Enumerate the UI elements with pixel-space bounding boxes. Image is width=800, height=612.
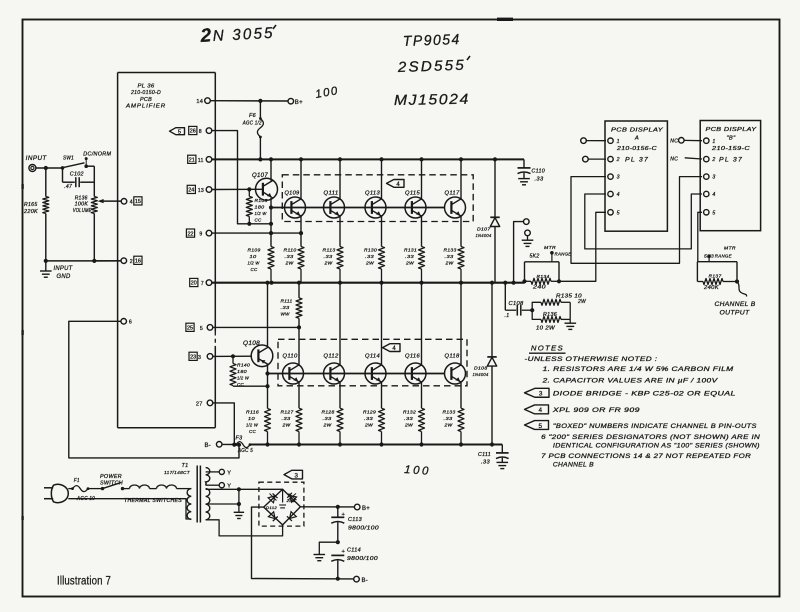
svg-text:Y: Y: [227, 470, 231, 476]
svg-text:F1: F1: [74, 478, 80, 484]
svg-text:220K: 220K: [23, 209, 38, 215]
svg-text:10: 10: [248, 416, 255, 422]
svg-text:Q118: Q118: [445, 354, 460, 360]
wire Q113 collector to B+ rail: [381, 159, 383, 199]
svg-text:R140: R140: [237, 363, 250, 369]
dashed outline top output transistor group: [282, 175, 473, 222]
svg-text:4: 4: [130, 199, 133, 205]
svg-text:F6: F6: [249, 113, 256, 119]
note 4 XPL909: [525, 405, 549, 414]
wire Q112 emitter down: [339, 382, 341, 408]
resistor R127 .33 ohm 2W: [296, 408, 302, 431]
PCB display B block PL37 210-159-C: [700, 121, 760, 231]
svg-text:1. RESISTORS ARE 1/4 W 5%: 1. RESISTORS ARE 1/4 W 5% CARBON FILM: [543, 366, 735, 373]
svg-text:15: 15: [135, 199, 141, 205]
svg-text:3: 3: [198, 355, 201, 361]
svg-text:.33: .33: [365, 254, 374, 260]
capacitor C110 .33 on B+ rail: [523, 159, 525, 167]
svg-text:23: 23: [190, 355, 196, 361]
ground for C111: [497, 461, 509, 463]
pin 3 [23] of PL36: [207, 354, 213, 360]
resistor R109 10 ohm 1/2W CC (Q107 emitter): [268, 247, 274, 270]
wire AC neutral to transformer: [68, 499, 191, 519]
svg-text:XPL 909 OR FR 909: XPL 909 OR FR 909: [551, 407, 640, 414]
svg-text:2W: 2W: [364, 423, 373, 429]
svg-text:.33: .33: [481, 460, 490, 466]
svg-text:RANGE: RANGE: [555, 252, 572, 258]
note 3 diode bridge: [525, 388, 550, 397]
resistor R130 .33 ohm 2W: [379, 247, 385, 270]
svg-text:2W: 2W: [323, 261, 332, 267]
svg-text:C108: C108: [509, 301, 524, 307]
svg-text:.33: .33: [535, 177, 544, 183]
svg-text:R109: R109: [248, 248, 261, 254]
svg-text:1/2 W: 1/2 W: [246, 423, 258, 429]
pin 9 [22] of PL36: [206, 230, 212, 236]
pin 1 of display B: [704, 138, 709, 143]
svg-text:MTR: MTR: [724, 245, 736, 251]
svg-text:2W: 2W: [284, 261, 293, 267]
wire R134 node to display A pin 5: [559, 212, 606, 281]
capacitor C108 .1: [504, 283, 506, 311]
resistor R137 240K: [697, 281, 703, 283]
svg-text:1: 1: [617, 139, 620, 145]
svg-text:MTR: MTR: [544, 245, 556, 251]
wire Q112 collector to output rail: [339, 283, 341, 366]
fuse F1 AGC 10: [68, 488, 72, 490]
wire Q108 collector to output rail: [267, 283, 269, 347]
svg-text:.33: .33: [285, 254, 294, 260]
svg-text:B+: B+: [362, 506, 370, 512]
svg-text:R130: R130: [364, 248, 377, 254]
svg-text:Q110: Q110: [283, 354, 298, 360]
wire SW1 to C102 node: [86, 165, 94, 167]
wire bridge negative to B- terminal: [252, 507, 354, 579]
pin 2 of display B: [704, 156, 709, 161]
svg-text:5K3: 5K3: [704, 253, 714, 259]
wire input ground bus: [46, 260, 121, 262]
pin 7 [20] of PL36: [206, 280, 212, 286]
bridge diode (lower right arm): [287, 512, 296, 521]
wire squiggle to channel B output: [737, 282, 747, 297]
svg-text:5K2: 5K2: [530, 254, 540, 260]
wire bridge positive to B+ terminal: [300, 506, 354, 508]
svg-text:"BOXED" NUMBERS INDICATE CHA: "BOXED" NUMBERS INDICATE CHANNEL B PIN-O…: [553, 423, 757, 430]
capacitor C111 .33 on B- rail: [501, 445, 503, 453]
svg-text:PCB: PCB: [140, 97, 152, 103]
svg-text:DC/NORM: DC/NORM: [83, 151, 111, 157]
svg-text:27: 27: [196, 401, 203, 407]
svg-text:4: 4: [712, 192, 715, 198]
svg-text:20: 20: [191, 281, 197, 287]
svg-text:1/2 W: 1/2 W: [248, 261, 260, 267]
svg-text:Q112: Q112: [324, 354, 339, 360]
wire secondary top tap to bridge: [206, 488, 283, 490]
svg-text:5: 5: [539, 423, 543, 430]
svg-text:R136: R136: [543, 312, 557, 318]
svg-text:Q113: Q113: [365, 191, 380, 197]
svg-text:PL 37: PL 37: [719, 157, 743, 164]
svg-text:5: 5: [712, 210, 715, 216]
svg-text:D112: D112: [266, 505, 277, 510]
svg-text:T1: T1: [182, 463, 189, 469]
resistor R128 .33 ohm 2W: [337, 408, 343, 431]
svg-text:9: 9: [199, 232, 202, 238]
svg-text:2W: 2W: [444, 261, 453, 267]
svg-text:2: 2: [199, 25, 212, 47]
svg-text:100: 100: [404, 464, 431, 478]
svg-text:11: 11: [198, 158, 204, 164]
diode D107 1N4004: [494, 159, 496, 217]
svg-text:NC: NC: [670, 139, 678, 145]
svg-text:SW1: SW1: [63, 156, 74, 162]
svg-text:NC: NC: [670, 157, 678, 163]
pin 8 [26] of PL36 with channel-B tag 5: [206, 128, 212, 134]
svg-text:DIODE BRIDGE - KBP C25-02: DIODE BRIDGE - KBP C25-02 OR EQUAL: [553, 391, 736, 398]
svg-text:INPUT: INPUT: [54, 266, 74, 272]
svg-text:R110: R110: [284, 248, 297, 254]
tag 4 (XPL909) bottom: [383, 344, 401, 352]
svg-text:14: 14: [196, 99, 203, 105]
svg-text:210-0150-D: 210-0150-D: [130, 90, 161, 96]
pin 3 of display B: [704, 174, 709, 179]
svg-text:R131: R131: [404, 248, 417, 254]
pin 3 of display A: [608, 174, 613, 179]
resistor R111 .33 ohm WW (current sense): [298, 283, 300, 298]
bridge center mark: [282, 489, 284, 502]
capacitor C113 9800/100: [337, 507, 339, 517]
ground for Zobel network: [565, 322, 577, 324]
svg-text:CC: CC: [251, 267, 258, 273]
svg-text:2: 2: [711, 157, 715, 163]
wire center tap to ground: [206, 503, 239, 505]
resistor R136 10 ohm 2W: [532, 310, 541, 319]
svg-text:R111: R111: [281, 299, 293, 305]
svg-text:21: 21: [189, 158, 195, 164]
svg-text:26: 26: [190, 129, 196, 135]
wire Q107 emitter down: [270, 198, 272, 247]
diode D108 1N4004: [491, 283, 493, 357]
wire pot bottom to pin 2 wire: [93, 214, 95, 261]
wire top base bus: [271, 207, 445, 209]
svg-text:1N4004: 1N4004: [473, 372, 489, 378]
wiper arrow of R136 to pin 4: [102, 200, 122, 202]
pin 5 [25] of PL36: [207, 325, 213, 331]
svg-text:RANGE: RANGE: [715, 253, 732, 259]
svg-text:Illustration 7: Illustration 7: [57, 574, 111, 588]
diode bridge D112: [264, 489, 301, 525]
svg-text:NOTES: NOTES: [531, 344, 564, 353]
svg-text:Q117: Q117: [445, 191, 461, 197]
svg-text:5: 5: [178, 129, 181, 135]
svg-text:CC: CC: [237, 382, 244, 388]
svg-text:R128: R128: [322, 410, 335, 416]
svg-text:9800/100: 9800/100: [347, 556, 378, 562]
svg-text:R137: R137: [709, 274, 722, 280]
svg-text:R116: R116: [246, 410, 259, 416]
potentiometer R136 100K VOLUME: [91, 197, 97, 214]
svg-text:TP9054: TP9054: [403, 32, 462, 50]
wire Zobel to ground: [569, 302, 571, 319]
pin 2 of display A: [608, 156, 613, 161]
svg-text:3: 3: [617, 175, 620, 181]
svg-text:C111: C111: [478, 452, 491, 458]
svg-text:PL 37: PL 37: [625, 157, 649, 164]
pin 4 [15] of PL36: [121, 199, 127, 205]
svg-text:210-0156-C: 210-0156-C: [616, 146, 657, 152]
svg-text:AGC 5: AGC 5: [237, 448, 253, 454]
svg-text:.33: .33: [282, 416, 291, 422]
wire Q118 collector to output rail: [460, 283, 462, 366]
pin 14 of PL36: [205, 98, 211, 104]
wire Q109 collector to B+ rail: [300, 159, 302, 199]
svg-text:210-159-C: 210-159-C: [711, 146, 750, 152]
svg-text:R165: R165: [24, 202, 38, 208]
wire Q115 collector to B+ rail: [421, 159, 423, 199]
svg-text:1N4004: 1N4004: [476, 233, 492, 239]
resistor R135 10 ohm 2W: [532, 302, 541, 310]
svg-text:.47: .47: [64, 184, 73, 190]
svg-text:.33: .33: [444, 416, 453, 422]
svg-text:6: 6: [129, 320, 132, 326]
svg-text:6 "200" SERIES DESIGNATORS: 6 "200" SERIES DESIGNATORS (NOT SHOWN) A…: [541, 434, 760, 441]
wire Q117 collector to B+ rail: [460, 159, 462, 199]
svg-text:INPUT: INPUT: [26, 155, 48, 162]
svg-text:R133: R133: [444, 248, 457, 254]
svg-text:4: 4: [617, 192, 620, 198]
svg-text:10: 10: [250, 254, 257, 260]
svg-text:1: 1: [712, 139, 715, 145]
wire secondary bottom tap to bridge: [206, 520, 283, 536]
resistor R103 180 ohm 1/2W CC: [248, 189, 250, 196]
dashed outline bottom output transistor group: [278, 339, 467, 386]
AC line plug: [51, 484, 68, 502]
svg-text:+: +: [342, 512, 346, 518]
svg-text:R127: R127: [281, 410, 294, 416]
resistor R140 180 ohm 1/2W CC: [232, 356, 234, 363]
svg-text:2SD555: 2SD555: [397, 58, 467, 76]
svg-text:+: +: [342, 549, 346, 555]
capacitor C102 .47: [62, 168, 64, 182]
wire Q118 emitter down: [460, 382, 462, 408]
svg-text:F3: F3: [236, 436, 243, 442]
svg-text:.33: .33: [323, 416, 332, 422]
pin 4 of display A: [608, 191, 613, 196]
resistor R132 .33 ohm 2W: [419, 408, 425, 431]
svg-text:A: A: [634, 136, 639, 142]
svg-text:-UNLESS OTHERWISE NOTED :: -UNLESS OTHERWISE NOTED :: [525, 356, 658, 363]
svg-text:C113: C113: [348, 517, 362, 523]
ground for supply midpoint: [314, 554, 326, 556]
PCB amplifier block PL36 210-0150-D: [118, 72, 216, 74]
svg-text:CC: CC: [249, 429, 256, 435]
svg-text:7 PCB CONNECTIONS 14 & 27: 7 PCB CONNECTIONS 14 & 27 NOT REPEATED F…: [541, 453, 751, 460]
wire B- rail: [250, 444, 502, 446]
svg-text:CHANNEL B: CHANNEL B: [715, 302, 756, 308]
tag 4 (XPL909) top: [387, 180, 405, 188]
svg-text:10 2W: 10 2W: [536, 326, 556, 332]
svg-text:2W: 2W: [322, 423, 331, 429]
svg-text:PCB DISPLAY: PCB DISPLAY: [706, 127, 757, 133]
wire R140 bottom to Q108 emitter: [233, 385, 268, 387]
pin 27 of PL36: [207, 400, 213, 406]
wire Q116 collector to output rail: [421, 283, 423, 366]
wire pin 9 to driver emitter nodes: [212, 232, 301, 234]
resistor R133 .33 ohm 2W: [458, 247, 464, 270]
svg-text:2W: 2W: [443, 423, 452, 429]
svg-text:B+: B+: [295, 100, 303, 106]
wire display A pin 4 to display B pin 4: [585, 194, 702, 249]
pin 6 of PL36: [121, 319, 127, 325]
svg-text:WW: WW: [281, 312, 290, 318]
svg-text:5: 5: [617, 210, 620, 216]
svg-text:24: 24: [188, 188, 194, 194]
svg-text:PCB DISPLAY: PCB DISPLAY: [611, 128, 663, 134]
svg-text:2D2: 2D2: [285, 498, 296, 503]
potentiometer MTR RANGE 5K2: [525, 261, 560, 263]
svg-text:8: 8: [199, 129, 202, 135]
svg-text:GND: GND: [57, 274, 71, 280]
svg-text:2W: 2W: [405, 261, 414, 267]
svg-text:R134: R134: [537, 274, 550, 280]
svg-text:4: 4: [539, 407, 543, 414]
svg-text:.1: .1: [505, 313, 510, 319]
svg-text:R103: R103: [255, 198, 268, 204]
fuse F3 AGC 5: [236, 442, 250, 448]
svg-text:Q111: Q111: [324, 191, 339, 197]
fuse F6 AGC 1/2: [259, 101, 261, 119]
potentiometer MTR RANGE 5K3: [697, 261, 737, 263]
power switch: [88, 488, 103, 490]
svg-text:.33: .33: [445, 254, 454, 260]
svg-text:B-: B-: [205, 443, 212, 449]
svg-text:22: 22: [188, 231, 194, 237]
Y terminal 2: [206, 484, 219, 486]
svg-text:MJ15024: MJ15024: [394, 92, 470, 109]
resistor R165 220K: [45, 168, 47, 197]
note 5 boxed numbers: [525, 421, 549, 430]
terminal B+ (100V): [288, 98, 294, 104]
wire pin 6 to B- node: [69, 321, 239, 458]
svg-text:.33: .33: [405, 254, 414, 260]
wire Q115 emitter down: [421, 216, 423, 247]
svg-text:Q109: Q109: [285, 191, 300, 197]
svg-text:C110: C110: [532, 169, 546, 175]
svg-text:240: 240: [532, 285, 546, 291]
svg-text:2W: 2W: [577, 299, 587, 305]
svg-text:"B": "B": [727, 136, 737, 142]
pin 4 of display B: [704, 191, 709, 196]
wire Q108 emitter down: [267, 365, 269, 409]
wire Q113 emitter down: [381, 216, 383, 247]
wire C102/SW1 node down to volume pot: [93, 166, 95, 196]
svg-text:R132: R132: [403, 410, 416, 416]
svg-text:Q116: Q116: [405, 354, 420, 360]
wire Q117 emitter down: [460, 216, 462, 247]
wire pin 14 to B+ terminal: [210, 100, 288, 102]
wire Q110 emitter down: [298, 382, 300, 408]
wire display A pin 1 stub: [586, 140, 606, 142]
svg-text:2W: 2W: [404, 423, 413, 429]
svg-text:16: 16: [135, 259, 141, 265]
resistor R110 .33 ohm 2W: [298, 247, 304, 270]
wire pin 13 to Q107 base: [212, 188, 263, 190]
svg-text:180: 180: [237, 369, 247, 375]
node R165 top: [44, 166, 48, 170]
wire display A pin 3 to display B pin 3: [571, 177, 702, 264]
resistor R133 .33 ohm 2W: [458, 408, 464, 431]
svg-text:.33: .33: [364, 416, 373, 422]
wire Q114 emitter down: [381, 382, 383, 408]
svg-text:5: 5: [200, 326, 203, 332]
svg-text:R113: R113: [323, 248, 336, 254]
svg-text:C114: C114: [347, 548, 361, 554]
svg-text:.33: .33: [281, 305, 290, 311]
Y terminal 1: [206, 471, 219, 473]
svg-text:CC: CC: [255, 218, 262, 224]
wire display A pin 2 stub: [588, 158, 606, 160]
svg-text:3: 3: [539, 391, 543, 398]
svg-text:2: 2: [130, 259, 133, 265]
PCB display A block PL37 210-0156-C: [605, 121, 667, 231]
terminal B+ (supply): [354, 504, 360, 510]
svg-text:AMPLIFIER: AMPLIFIER: [125, 103, 166, 109]
ground for transformer center tap: [234, 511, 244, 513]
svg-text:2. CAPACITOR VALUES ARE IN: 2. CAPACITOR VALUES ARE IN µF / 100V: [541, 378, 718, 385]
input ground symbol: [45, 261, 47, 271]
svg-text:13: 13: [198, 188, 204, 194]
pin 5 of display B: [704, 210, 709, 215]
svg-text:CHANNEL B: CHANNEL B: [553, 462, 594, 469]
wire display B pin 5 to range pot B: [698, 212, 702, 261]
svg-text:R129: R129: [363, 410, 376, 416]
wire Q107 collector to B+ rail: [270, 159, 272, 180]
wire input jack to SW1: [36, 167, 63, 169]
svg-text:VOLUME: VOLUME: [73, 208, 92, 214]
wire Q110 collector to output rail: [298, 327, 300, 365]
svg-text:D107: D107: [477, 227, 491, 233]
svg-text:C102: C102: [70, 171, 84, 177]
svg-text:25: 25: [187, 326, 193, 332]
terminal B- (supply): [354, 576, 360, 582]
svg-text:D108: D108: [474, 366, 488, 372]
svg-text:N 3055: N 3055: [212, 25, 275, 45]
svg-text:2W: 2W: [281, 423, 290, 429]
wire Q109 emitter down: [300, 216, 302, 247]
bridge diode (upper right arm): [287, 493, 296, 502]
pin 2 [16] of PL36: [121, 258, 127, 264]
svg-text:117/148CT: 117/148CT: [164, 470, 191, 476]
svg-text:SWITCH: SWITCH: [100, 481, 123, 487]
resistor R131 .33 ohm 2W: [419, 247, 425, 270]
resistor R113 .33 ohm 2W: [337, 247, 343, 270]
wire Q111 emitter down: [339, 216, 341, 247]
svg-text:B-: B-: [362, 578, 369, 584]
svg-text:180: 180: [255, 205, 265, 211]
resistor R134 240 ohm: [525, 280, 532, 282]
svg-text:.33: .33: [324, 254, 333, 260]
thermal switches: [123, 488, 130, 490]
svg-text:7: 7: [201, 281, 204, 287]
svg-text:OUTPUT: OUTPUT: [720, 311, 751, 317]
wire B+ supply rail: [212, 158, 524, 160]
svg-text:POWER: POWER: [100, 474, 122, 480]
bridge diode (upper left arm): [268, 493, 277, 502]
tag 3 (diode bridge): [284, 470, 303, 479]
speaker output terminal: [514, 222, 524, 283]
svg-text:.33: .33: [404, 416, 413, 422]
resistor R129 .33 ohm 2W: [379, 408, 385, 431]
